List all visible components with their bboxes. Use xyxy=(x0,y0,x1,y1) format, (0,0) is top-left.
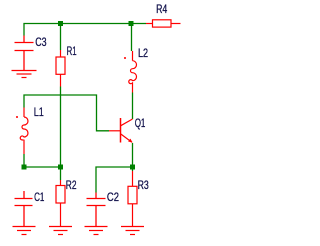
wire Q1 emitter to node xyxy=(132,143,134,167)
ground for C3 xyxy=(12,71,37,78)
resistor R3 xyxy=(128,171,137,227)
node junction top R1 xyxy=(58,21,63,26)
node junction L1/C1 xyxy=(22,165,27,170)
ground for R3 xyxy=(121,227,144,235)
svg-text:C1: C1 xyxy=(34,190,44,204)
node junction emitter/R3 xyxy=(130,165,135,170)
wire R1 bottom run xyxy=(60,87,62,168)
transistor Q1 xyxy=(109,118,133,143)
capacitor C1 xyxy=(15,191,33,227)
ground for R2 xyxy=(49,227,72,235)
svg-text:L2: L2 xyxy=(138,46,148,60)
node junction R2 xyxy=(58,165,63,170)
svg-text:C3: C3 xyxy=(35,35,46,49)
wire L2 riser xyxy=(131,24,133,52)
resistor R2 xyxy=(56,180,65,227)
inductor L1 xyxy=(16,108,28,155)
inductor L2 xyxy=(124,51,137,93)
resistor R4 xyxy=(146,20,181,27)
wire L2 to Q1 collector xyxy=(132,93,134,120)
wire lower row right segment to C2 xyxy=(96,167,133,193)
svg-text:L1: L1 xyxy=(34,105,44,119)
wire L1 bottom xyxy=(23,154,25,167)
svg-text:C2: C2 xyxy=(107,190,119,204)
svg-text:R3: R3 xyxy=(138,178,149,192)
capacitor C3 xyxy=(15,36,34,71)
wire lower row left segment xyxy=(24,166,61,168)
wire R3 stub xyxy=(132,167,134,171)
wire mid rail to Q1 base xyxy=(24,95,109,131)
ground for C2 xyxy=(85,227,108,235)
resistor R1 xyxy=(56,50,65,87)
node junction top L2 xyxy=(129,21,134,26)
svg-text:R1: R1 xyxy=(67,44,77,58)
ground for C1 xyxy=(13,227,36,235)
wire R2 stub xyxy=(60,167,62,180)
capacitor C2 xyxy=(87,193,106,227)
svg-text:Q1: Q1 xyxy=(135,116,146,130)
wire R1 top stub xyxy=(60,24,62,51)
wire top VCC rail xyxy=(24,24,146,36)
svg-text:R2: R2 xyxy=(66,178,77,192)
svg-text:R4: R4 xyxy=(156,2,167,16)
